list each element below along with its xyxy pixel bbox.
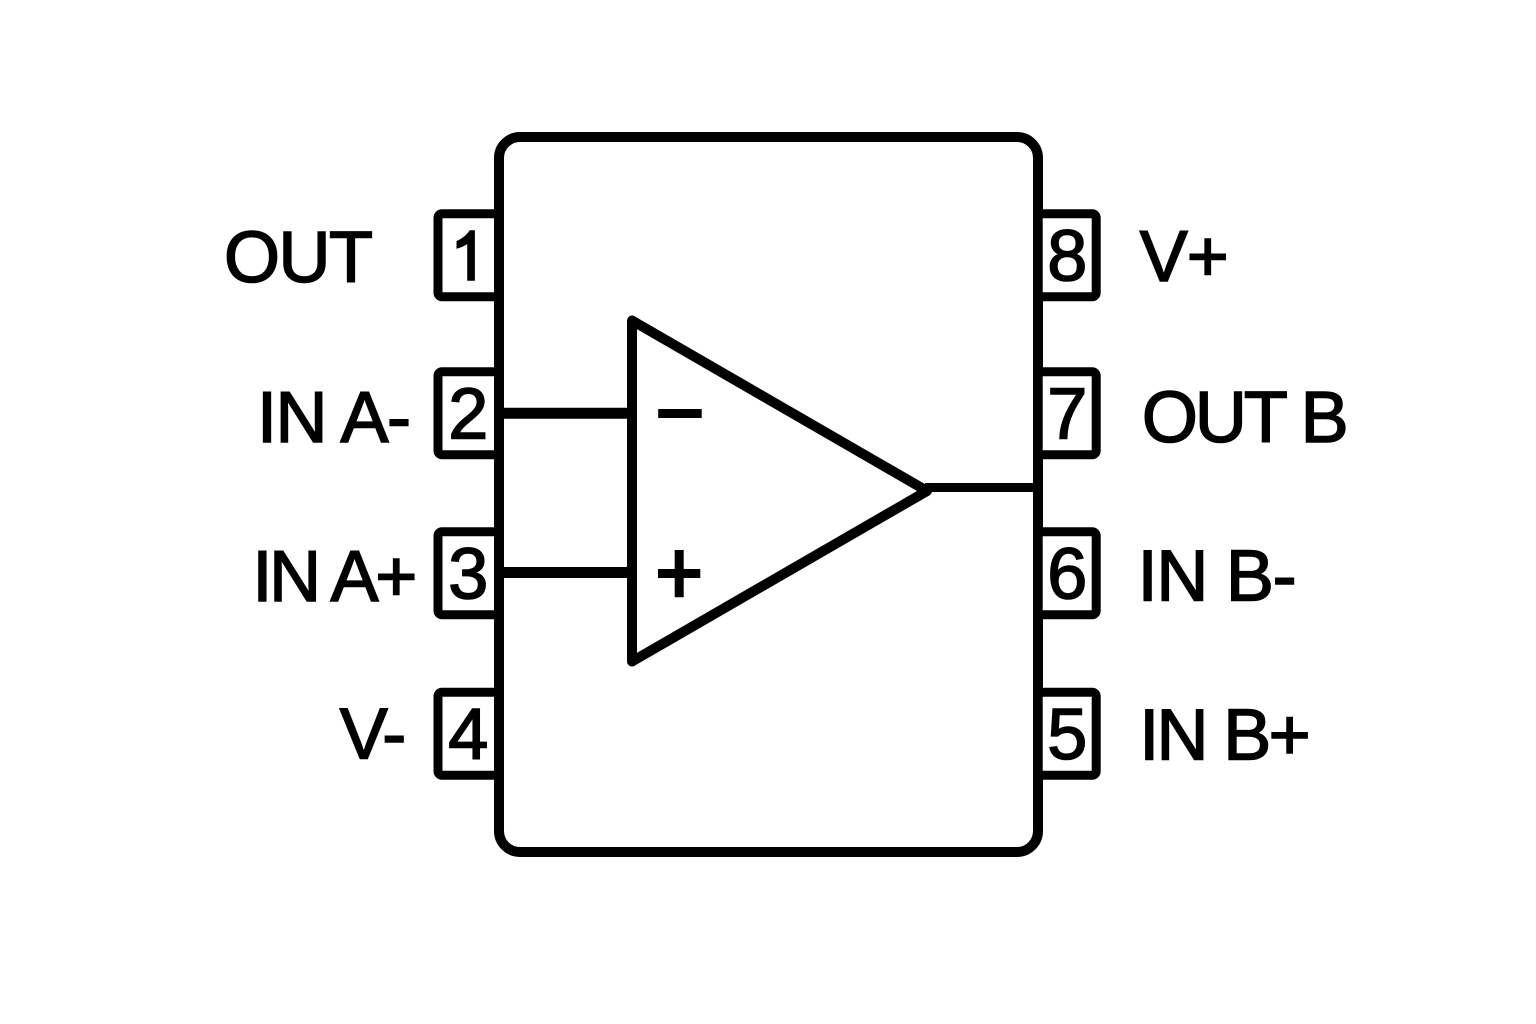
svg-text:V+: V+ — [1140, 217, 1228, 297]
svg-text:IN B-: IN B- — [1138, 537, 1296, 617]
svg-text:6: 6 — [1047, 534, 1087, 614]
svg-text:IN B+: IN B+ — [1139, 696, 1308, 776]
svg-text:IN A+: IN A+ — [252, 537, 414, 617]
svg-text:OUT B: OUT B — [1142, 378, 1346, 458]
svg-text:5: 5 — [1047, 695, 1087, 775]
svg-text:IN A-: IN A- — [257, 378, 410, 458]
svg-text:8: 8 — [1047, 217, 1087, 297]
svg-text:4: 4 — [448, 695, 488, 775]
svg-text:7: 7 — [1047, 375, 1087, 455]
svg-text:3: 3 — [448, 534, 488, 614]
svg-text:OUT: OUT — [224, 218, 372, 298]
svg-text:V-: V- — [340, 695, 405, 775]
svg-text:2: 2 — [448, 375, 488, 455]
